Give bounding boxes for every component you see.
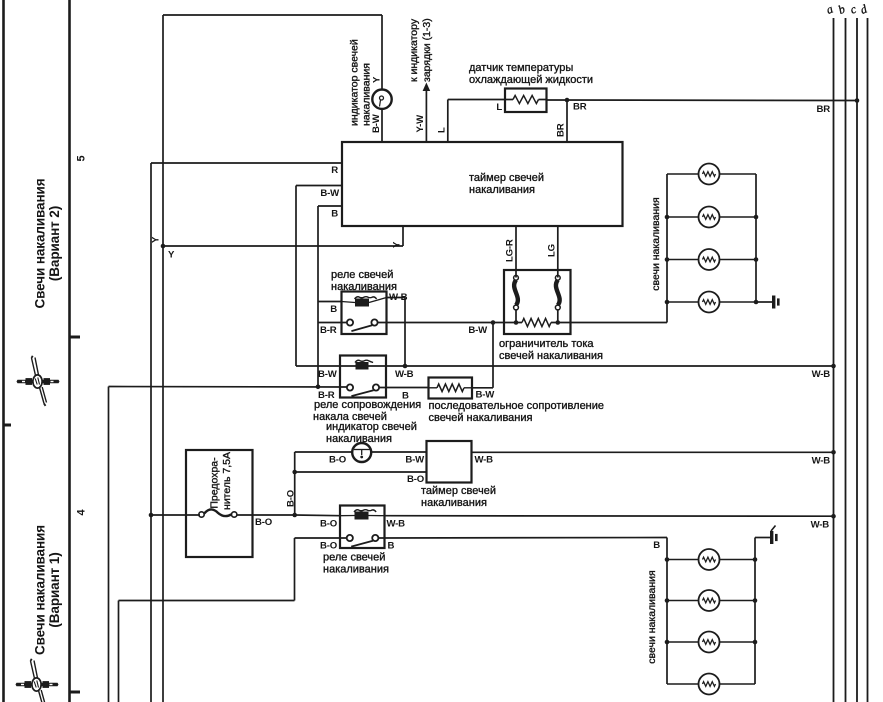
svg-text:Y: Y bbox=[392, 241, 403, 248]
svg-text:LG-R: LG-R bbox=[505, 239, 516, 262]
wire B-O to lamp v1 bbox=[295, 451, 353, 453]
wire B-W lamp to timer v1 bbox=[371, 451, 426, 453]
section tick y337 bbox=[70, 336, 81, 339]
wire W-B from K1 coil bbox=[387, 297, 406, 299]
wire vertical B-O riser bbox=[294, 452, 296, 515]
svg-text:ограничитель тока: ограничитель тока bbox=[499, 338, 594, 350]
svg-text:4: 4 bbox=[76, 508, 88, 515]
node B-O junction y472 bbox=[292, 470, 297, 475]
wire L sensor branch bbox=[447, 100, 449, 143]
wire top feed horizontal y15 bbox=[163, 14, 382, 16]
svg-text:Y: Y bbox=[151, 236, 162, 243]
svg-text:B-W: B-W bbox=[476, 390, 496, 401]
svg-text:B-W: B-W bbox=[468, 325, 488, 336]
node limiter right bbox=[556, 320, 561, 325]
node Y junction bbox=[161, 244, 166, 249]
svg-text:LG: LG bbox=[547, 244, 558, 257]
node BR junction bbox=[565, 98, 570, 103]
wire vertical x151 (R feed to bottom edge) bbox=[150, 163, 152, 702]
node W-B on bus a (top) bbox=[831, 364, 836, 369]
wire R y163 bbox=[151, 162, 342, 164]
svg-text:свечей накаливания: свечей накаливания bbox=[429, 412, 533, 424]
svg-text:таймер свечей: таймер свечей bbox=[421, 485, 496, 497]
svg-text:BR: BR bbox=[556, 123, 567, 137]
svg-text:таймер свечей: таймер свечей bbox=[469, 172, 544, 184]
svg-text:реле свечей: реле свечей bbox=[331, 269, 393, 281]
glow plug 1-2 bbox=[667, 216, 699, 218]
section tick y692 bbox=[70, 691, 81, 694]
glow plug timer (variant 2) U1 bbox=[342, 142, 623, 226]
bus line d bbox=[867, 18, 869, 702]
nodes group 1 left rail bbox=[665, 215, 670, 220]
glow plug 1-3 bbox=[667, 259, 699, 261]
svg-text:индикатор свечей: индикатор свечей bbox=[326, 421, 417, 433]
wire B-W lamp to timer bbox=[381, 109, 383, 142]
aircraft icon upper bbox=[17, 356, 60, 406]
svg-text:B-W: B-W bbox=[371, 113, 382, 133]
wire vertical x318 B feed bbox=[317, 206, 319, 387]
svg-text:W-B: W-B bbox=[395, 369, 414, 380]
svg-text:B-O: B-O bbox=[255, 517, 273, 528]
svg-text:Свечи накаливания: Свечи накаливания bbox=[33, 179, 48, 309]
glow plug 2-1 bbox=[667, 559, 699, 561]
wire B-W limiter to plugs group 1 bbox=[551, 322, 667, 324]
bus line a bbox=[833, 18, 835, 702]
node fuse feed junction x151 bbox=[149, 513, 154, 518]
relay K2 contact bbox=[347, 384, 353, 390]
svg-text:накаливания: накаливания bbox=[469, 184, 535, 196]
svg-text:датчик температуры: датчик температуры bbox=[469, 62, 573, 74]
svg-text:W-B: W-B bbox=[389, 292, 408, 303]
svg-text:Y: Y bbox=[372, 76, 383, 83]
wire B-O into K3 coil bbox=[295, 514, 340, 517]
svg-text:BR: BR bbox=[573, 102, 587, 113]
svg-text:B: B bbox=[331, 209, 338, 220]
svg-text:реле свечей: реле свечей bbox=[323, 552, 385, 564]
wire LG timer to limiter bbox=[557, 226, 559, 278]
svg-text:B-R: B-R bbox=[320, 325, 337, 336]
relay K3 contact bbox=[347, 535, 353, 541]
svg-text:свечи накаливания: свечи накаливания bbox=[650, 197, 662, 290]
svg-text:B-O: B-O bbox=[329, 455, 347, 466]
svg-text:зарядки (1-3): зарядки (1-3) bbox=[421, 18, 433, 82]
svg-text:B-W: B-W bbox=[405, 455, 425, 466]
glow plug relay (variant 2) K1 bbox=[342, 292, 387, 335]
svg-text:B-O: B-O bbox=[407, 474, 425, 485]
node W-B junction x405 bbox=[403, 364, 408, 369]
glow plug 2-3 bbox=[667, 641, 699, 643]
ground group 1 bbox=[756, 301, 772, 303]
glow plug current limiter bbox=[504, 270, 571, 334]
svg-text:B: B bbox=[402, 391, 409, 402]
wire B-O riser from bottom edge bbox=[294, 538, 296, 601]
afterglow relay (variant 2) K2 bbox=[340, 356, 386, 398]
bus line b bbox=[845, 18, 847, 702]
glow plug relay (variant 1) K3 bbox=[340, 506, 385, 549]
svg-text:индикатор свечей: индикатор свечей bbox=[349, 39, 361, 126]
node BR on bus c bbox=[855, 98, 860, 103]
svg-text:(Вариант 2): (Вариант 2) bbox=[47, 206, 62, 281]
glow plugs group 1 right rail bbox=[755, 174, 757, 302]
svg-text:к индикатору: к индикатору bbox=[408, 18, 420, 82]
wire B-O to K3 contact bbox=[295, 537, 347, 539]
svg-text:B-O: B-O bbox=[320, 541, 338, 552]
glow plugs group 2 left rail bbox=[666, 538, 668, 685]
ground group 2 bbox=[755, 537, 770, 539]
node B-O junction x295 bbox=[292, 513, 297, 518]
svg-text:R: R bbox=[331, 165, 338, 176]
wire vertical x108 (off page) bbox=[108, 387, 110, 702]
glow plugs group 1 left rail bbox=[666, 174, 668, 323]
svg-text:L: L bbox=[496, 102, 502, 113]
glow plug 2-4 bbox=[667, 683, 699, 685]
border frame left rule bbox=[2, 0, 5, 702]
section tick on left rule bbox=[4, 424, 12, 427]
node W-B on bus a (middle) bbox=[831, 450, 836, 455]
svg-text:Предохра-: Предохра- bbox=[209, 457, 221, 509]
relay K1 coil bbox=[342, 302, 356, 303]
relay K1 contact bbox=[347, 319, 353, 325]
coolant temperature sensor bbox=[505, 89, 547, 113]
node limiter left bbox=[514, 320, 519, 325]
wire LG-R timer to limiter bbox=[515, 226, 517, 278]
svg-text:W-B: W-B bbox=[811, 520, 830, 531]
svg-text:W-B: W-B bbox=[812, 456, 831, 467]
bus line c bbox=[856, 18, 858, 702]
wire B from K3 contact to plugs group 2 bbox=[378, 537, 667, 540]
fuse 7.5A box bbox=[186, 450, 253, 557]
wire W-B timer v1 to bus a bbox=[472, 451, 834, 453]
series resistor of glow plugs bbox=[429, 378, 473, 399]
glow plugs group 2 right rail bbox=[754, 538, 756, 685]
relay K3 coil bbox=[340, 515, 355, 517]
svg-text:(Вариант 1): (Вариант 1) bbox=[47, 552, 62, 627]
fuse element bbox=[199, 512, 204, 517]
svg-text:W-B: W-B bbox=[387, 519, 406, 530]
svg-text:B: B bbox=[330, 304, 337, 315]
relay K2 coil bbox=[355, 360, 373, 362]
svg-text:5: 5 bbox=[76, 155, 88, 161]
nodes group 2 right rail bbox=[753, 557, 758, 562]
svg-text:B: B bbox=[388, 541, 395, 552]
wire B-W from K1 contact to limiter bbox=[378, 322, 523, 324]
nodes group 1 right rail bbox=[754, 215, 759, 220]
wire B timer left pin bbox=[318, 205, 342, 207]
wire W-B from K3 coil to bus a bbox=[385, 515, 834, 518]
wire Y from timer bottom bbox=[402, 226, 404, 246]
wire vertical x163 (to bottom edge) bbox=[162, 15, 164, 702]
svg-text:B-O: B-O bbox=[320, 519, 338, 530]
indicator lamp (glow indicator, variant 2) bbox=[381, 15, 383, 90]
wire vertical x296 B-W to W-B line bbox=[295, 186, 297, 367]
node B-W junction x493 bbox=[491, 320, 496, 325]
limiter resistor bbox=[522, 318, 551, 326]
svg-text:B-W: B-W bbox=[318, 369, 338, 380]
svg-text:накаливания: накаливания bbox=[421, 497, 487, 509]
wire B-W timer left pin bbox=[296, 185, 342, 187]
wire B-R feed line y387 bbox=[109, 386, 348, 389]
svg-text:L: L bbox=[437, 127, 448, 133]
svg-text:B-W: B-W bbox=[320, 188, 340, 199]
wire B from K2 contact bbox=[379, 387, 429, 389]
svg-text:последовательное сопротивление: последовательное сопротивление bbox=[429, 400, 605, 412]
svg-text:охлаждающей жидкости: охлаждающей жидкости bbox=[469, 74, 593, 86]
svg-text:BR: BR bbox=[817, 104, 831, 115]
svg-text:W-B: W-B bbox=[812, 369, 831, 380]
glow plug timer (variant 1) U2 bbox=[427, 441, 472, 483]
node W-B on bus a (bottom) bbox=[831, 514, 836, 519]
wire vertical x118 (off page) bbox=[118, 601, 120, 702]
wire B to K1 coil bbox=[318, 301, 342, 303]
svg-text:W-B: W-B bbox=[475, 455, 494, 466]
svg-text:d: d bbox=[858, 1, 870, 17]
aircraft icon lower bbox=[16, 659, 59, 702]
svg-text:B-O: B-O bbox=[286, 489, 297, 507]
sidebar divider rule bbox=[68, 0, 71, 702]
glow plug 2-2 bbox=[667, 600, 699, 602]
nodes group 2 left rail bbox=[665, 557, 670, 562]
svg-text:b: b bbox=[836, 2, 847, 17]
limiter bimetal strip left bbox=[514, 275, 519, 280]
svg-text:нитель 7,5А: нитель 7,5А bbox=[221, 452, 233, 510]
limiter bimetal strip right bbox=[555, 275, 560, 280]
arrow to charge indicator bbox=[425, 88, 427, 142]
svg-text:Y-W: Y-W bbox=[415, 114, 426, 133]
svg-text:накаливания: накаливания bbox=[323, 564, 389, 576]
wire B-O to timer v1 bbox=[295, 471, 427, 473]
svg-text:накаливания: накаливания bbox=[361, 63, 373, 126]
wire B-W from series resistor bbox=[472, 387, 493, 389]
indicator lamp (variant 1) bbox=[352, 443, 371, 462]
wire BR sensor to bus c bbox=[547, 99, 858, 102]
svg-text:B: B bbox=[653, 540, 660, 551]
glow plug 1-4 bbox=[667, 301, 699, 303]
wire B-O fuse line bbox=[151, 514, 200, 516]
svg-text:свечи накаливания: свечи накаливания bbox=[646, 570, 658, 663]
svg-text:Y: Y bbox=[168, 250, 175, 261]
svg-text:свечей накаливания: свечей накаливания bbox=[499, 350, 603, 362]
node B-R junction x318 bbox=[316, 385, 321, 390]
glow plug 1-1 bbox=[667, 173, 699, 175]
wire BR down to timer bbox=[566, 100, 568, 142]
svg-text:a: a bbox=[824, 2, 835, 17]
wire B-R to K1 contact bbox=[318, 322, 347, 324]
wire B-W / W-B line y366 bbox=[296, 365, 834, 367]
svg-text:Свечи накаливания: Свечи накаливания bbox=[33, 525, 48, 655]
